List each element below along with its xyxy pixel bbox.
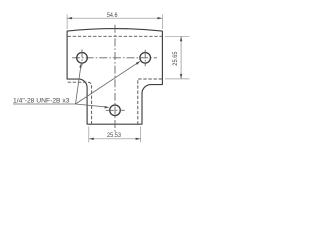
svg-text:25.65: 25.65: [172, 51, 179, 66]
hole 3 horizontal crosshair: [106, 109, 125, 111]
dimension 54.6 right arrow: [157, 17, 162, 19]
dimension 54.6 line: [67, 17, 162, 19]
hidden edge right step (dashed): [138, 79, 162, 124]
dimension 25.53 right arrow: [136, 138, 141, 140]
dimension 25.65 top arrow: [180, 36, 182, 41]
hidden edge top (dashed): [68, 35, 162, 37]
dimension 25.53 line: [89, 138, 141, 140]
dimension 25.53 extension lines: [89, 127, 141, 143]
hole 1 vertical crosshair: [81, 49, 83, 65]
part outline (T-bracket solid profile): [67, 29, 162, 125]
dimension 25.65 extension lines: [165, 36, 190, 79]
dimension 25.53 left arrow: [89, 138, 94, 140]
dimension 25.65 line: [180, 36, 182, 79]
hole 2 vertical crosshair: [144, 50, 146, 66]
leader to hole 1: [76, 67, 81, 104]
hidden edge left step (dashed): [68, 82, 92, 123]
hole 1: [77, 53, 88, 64]
leader to hole 2: [76, 63, 138, 104]
horizontal centerline through holes 1 and 2: [72, 57, 157, 59]
hole 2: [140, 53, 151, 64]
leader to hole 3: [76, 104, 106, 107]
leader arrow at hole 1: [79, 63, 81, 68]
dimension 54.6 left arrow: [67, 17, 72, 19]
vertical centerline of leg: [114, 25, 116, 134]
dimension 54.6 extension lines: [67, 15, 162, 30]
leader arrow at hole 2: [136, 61, 141, 65]
svg-text:25.53: 25.53: [107, 132, 122, 139]
leader arrow at hole 3: [105, 106, 110, 109]
dimension 25.65 bottom arrow: [180, 74, 182, 79]
hole 3: [110, 105, 121, 116]
svg-text:54.6: 54.6: [107, 12, 118, 19]
thread note underline: [13, 103, 76, 105]
